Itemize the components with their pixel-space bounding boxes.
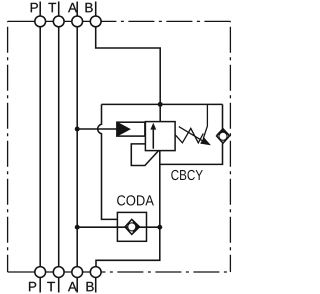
op-valve CBCY main envelope <box>145 122 175 151</box>
border top-left segment <box>8 20 35 22</box>
check valve of CBCY (ball and seat) <box>217 129 230 144</box>
label B top <box>86 3 93 12</box>
wire A line to CODA and through to node <box>77 226 160 228</box>
label CBCY <box>171 170 203 180</box>
node junction dot on A line at pilot <box>75 127 80 132</box>
port A bottom circle <box>72 267 83 278</box>
border bottom-left segment <box>8 271 35 273</box>
label A top <box>68 3 77 12</box>
wire P through-line <box>39 27 41 267</box>
top port stub lines <box>40 2 95 17</box>
wire T through-line <box>58 27 60 267</box>
port A top circle <box>72 16 83 27</box>
port P top circle <box>35 16 46 27</box>
wire A through-line <box>76 27 78 267</box>
border segments between top ports <box>46 20 91 22</box>
op CODA check valve envelope <box>117 212 146 241</box>
label B bottom <box>87 282 94 291</box>
label P top <box>31 3 38 12</box>
label T bottom <box>47 282 55 291</box>
label CODA <box>117 195 154 205</box>
wire A pilot line to CBCY pilot <box>77 128 117 130</box>
label A bottom <box>68 282 77 291</box>
wire B top to CBCY port 2 <box>96 27 161 122</box>
port B bottom circle <box>90 267 101 278</box>
manifold boundary (dash-dot border) <box>8 21 231 272</box>
bottom port stub lines <box>40 277 95 292</box>
border segments between bottom ports <box>46 271 91 273</box>
wire CBCY check branch from top line <box>222 104 224 129</box>
op CBCY pilot box with filled triangle <box>117 122 145 136</box>
label P bottom <box>29 282 36 291</box>
arrow inside CBCY envelope <box>152 129 154 149</box>
wire spring chamber drain to port 2 line <box>203 104 207 138</box>
port T bottom circle <box>53 267 64 278</box>
wire node to bottom port B <box>96 227 160 267</box>
label T top <box>48 3 56 12</box>
CBCY adjustment arrow across spring <box>179 127 203 141</box>
wire vent drop with crossover hop to CODA pilot <box>98 104 118 219</box>
CBCY spring <box>175 128 203 142</box>
wire CBCY port 1 down to CODA node <box>159 151 161 228</box>
CODA check symbol (seat and ball) <box>125 219 140 234</box>
border bottom-right segment <box>101 271 230 273</box>
border right side <box>229 21 231 272</box>
port B top circle <box>90 16 101 27</box>
port P bottom circle <box>35 267 46 278</box>
border top-right segment <box>101 20 230 22</box>
wire port-2 manifold top line <box>102 103 223 105</box>
wire CBCY check bottom to port 1 <box>160 144 223 165</box>
CBCY pilot piston lower box with diagonal <box>131 144 158 166</box>
node junction dot at (160,104) <box>158 102 163 107</box>
node junction dot A-CODA <box>75 225 80 230</box>
port T top circle <box>53 16 64 27</box>
border left side <box>7 21 9 272</box>
node junction dot CODA-CBCY <box>157 225 162 230</box>
